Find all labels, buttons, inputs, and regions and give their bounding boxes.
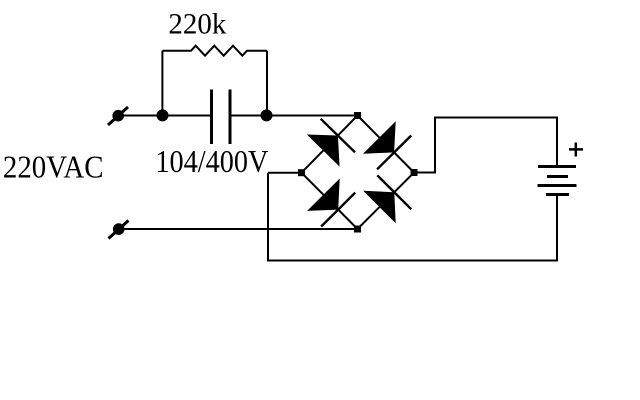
diode D2 upper-right (top node to right node) xyxy=(363,121,411,169)
wire node A to capacitor left plate xyxy=(163,115,212,117)
label + (battery positive) xyxy=(569,143,583,157)
wire node B to bridge top node xyxy=(267,115,358,117)
node square left xyxy=(298,169,305,176)
node B (junction dot right) xyxy=(261,109,273,121)
svg-text:104/400V: 104/400V xyxy=(155,143,268,179)
bridge edge top-right xyxy=(358,116,415,173)
node A (junction dot left) xyxy=(157,109,169,121)
wire bridge right node to battery positive (up and over) xyxy=(414,118,557,173)
bridge edge left-top xyxy=(302,116,358,173)
diode D3 lower-left (left node to bottom node) xyxy=(307,179,355,227)
battery BT1 plates xyxy=(538,167,577,195)
terminal J2 (lower AC input, circle with slash) xyxy=(109,221,129,239)
wire bridge left node to bottom rail corner xyxy=(268,172,302,174)
wire J1 to node A xyxy=(118,115,163,117)
svg-text:220k: 220k xyxy=(168,8,226,41)
capacitor C1 plates xyxy=(212,90,231,145)
bridge edge bottom-right xyxy=(358,173,415,230)
wire capacitor right plate to node B xyxy=(230,115,267,117)
node square right xyxy=(411,169,418,176)
svg-text:220VAC: 220VAC xyxy=(3,149,104,185)
node square bottom xyxy=(354,226,361,233)
bridge edge left-bottom xyxy=(302,173,358,229)
diode D4 lower-right (bottom node to right node) xyxy=(363,175,411,223)
node square top xyxy=(354,112,361,119)
wire battery negative to bottom rail xyxy=(268,173,557,261)
terminal J1 (upper AC input, circle with slash) xyxy=(108,107,128,125)
diode D1 upper-left (left node to top node) xyxy=(307,119,355,167)
wire J2 to bridge bottom node xyxy=(119,228,358,230)
resistor R1 220k (left leg, zigzag, right leg) xyxy=(162,46,267,116)
